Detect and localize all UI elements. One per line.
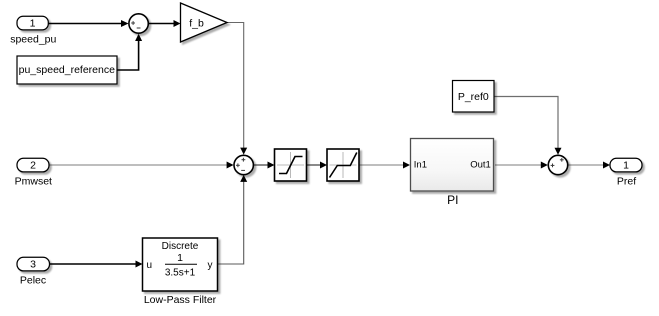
outport 1 Pref: [610, 158, 642, 187]
saturation block: [275, 149, 307, 181]
svg-text:P_ref0: P_ref0: [458, 91, 489, 103]
svg-text:u: u: [147, 260, 153, 271]
svg-text:3: 3: [30, 259, 36, 271]
svg-text:y: y: [208, 260, 213, 271]
svg-text:pu_speed_reference: pu_speed_reference: [19, 64, 115, 76]
wire f_b to sum2: [227, 23, 247, 155]
svg-text:Out1: Out1: [470, 159, 491, 170]
wire sum3 to outport Pref: [568, 162, 610, 169]
gain f_b: [181, 3, 228, 42]
transfer function Low-Pass Filter: [143, 238, 218, 306]
wire Low-Pass Filter to sum2: [218, 175, 248, 264]
svg-text:Pref: Pref: [617, 175, 636, 187]
svg-text:speed_pu: speed_pu: [10, 34, 56, 46]
svg-text:f_b: f_b: [189, 18, 204, 30]
svg-text:Low-Pass Filter: Low-Pass Filter: [144, 294, 217, 306]
svg-text:3.5s+1: 3.5s+1: [165, 268, 196, 279]
svg-text:Pmwset: Pmwset: [15, 175, 52, 187]
wire P_ref0 to sum3: [494, 97, 562, 155]
rate limiter block: [327, 149, 359, 181]
svg-text:Discrete: Discrete: [162, 241, 199, 252]
inport 3 Pelec: [17, 257, 50, 286]
svg-text:Pelec: Pelec: [20, 274, 46, 286]
subsystem PI: [411, 139, 494, 208]
svg-text:1: 1: [177, 252, 183, 264]
constant P_ref0: [453, 81, 495, 113]
wire port3 to Low-Pass Filter: [50, 261, 143, 268]
sum block sum3: [548, 155, 567, 174]
constant pu_speed_reference: [17, 56, 117, 84]
wire saturation to rate limiter: [307, 162, 328, 169]
wire sum2 to saturation: [254, 162, 275, 169]
svg-text:PI: PI: [447, 193, 458, 207]
wire port1 to sum1: [48, 20, 129, 27]
wire port2 to sum2: [49, 162, 234, 169]
svg-text:1: 1: [623, 160, 629, 172]
wire PI Out1 to sum3: [495, 162, 548, 169]
sum block sum1: [129, 14, 148, 33]
sum block sum2: [234, 155, 253, 174]
wire sum1 to f_b: [149, 20, 181, 27]
svg-text:2: 2: [30, 160, 36, 172]
wire rate limiter to PI In1: [359, 162, 411, 169]
wire pu_speed_reference to sum1: [117, 34, 142, 70]
svg-text:1: 1: [30, 18, 36, 30]
inport 2 Pmwset: [15, 158, 52, 187]
inport 1 speed_pu: [10, 16, 56, 45]
svg-text:In1: In1: [414, 159, 427, 170]
